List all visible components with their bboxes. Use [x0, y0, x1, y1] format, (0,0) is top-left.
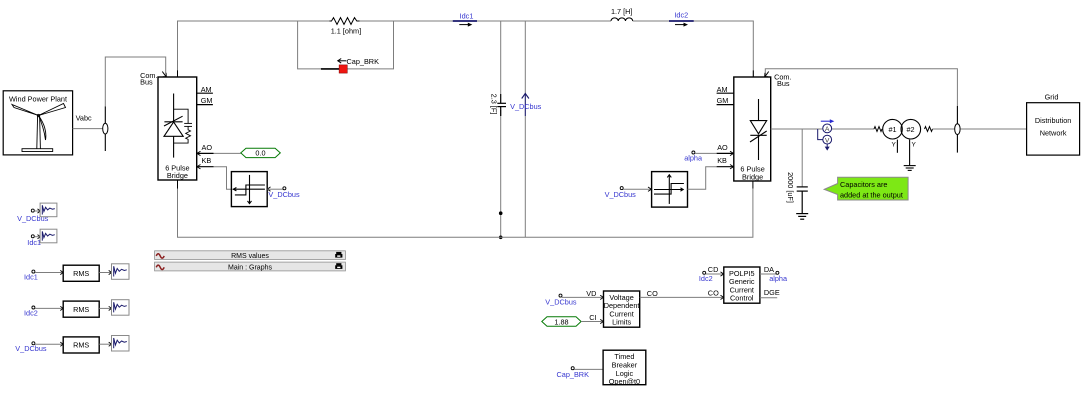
transformer T1 circle 1: [883, 119, 903, 139]
resistor R1 1.1 ohm: [330, 18, 360, 25]
terminal alpha to AO bridge2: [692, 151, 695, 154]
svg-text:0.0: 0.0: [255, 149, 265, 158]
svg-text:DGE: DGE: [764, 288, 780, 297]
svg-text:Idc1: Idc1: [24, 273, 38, 282]
wire bridge1 top lead: [177, 70, 179, 77]
svg-text:GM: GM: [717, 96, 729, 105]
svg-text:#2: #2: [907, 125, 915, 134]
scope terminal Idc1 (top left): [27, 235, 41, 247]
svg-text:Grid: Grid: [1045, 92, 1059, 101]
wire bottom DC rail: [178, 189, 753, 238]
pin KB bridge2: [717, 166, 734, 168]
svg-text:Distribution: Distribution: [1035, 116, 1072, 125]
pin GM bridge2: [717, 104, 734, 106]
svg-text:Bridge: Bridge: [167, 171, 188, 180]
snubber RC in bridge1: [174, 109, 192, 143]
wind power plant box: [3, 91, 72, 155]
RMS block row 1 (Idc1): [24, 264, 129, 282]
wire com bus 1: [105, 57, 165, 106]
wire limiter2 out to KB bridge2: [688, 167, 717, 190]
wind turbine drawing: [12, 104, 66, 152]
voltmeter V_DCbus branch: [524, 21, 526, 94]
wire CO to POLPI5: [640, 296, 724, 298]
wire KB to limiter1: [214, 167, 232, 190]
wire Vabc: [73, 128, 103, 130]
scope icon 1: [40, 203, 57, 217]
bus B2: [955, 106, 960, 153]
hexagon meter 0.0: [241, 148, 280, 157]
op bridge2 box 6 Pulse Bridge: [734, 77, 771, 181]
pin DGE: [760, 297, 777, 299]
svg-text:added at the output: added at the output: [840, 190, 903, 199]
svg-text:V_DCbus: V_DCbus: [605, 190, 637, 199]
pin AO bridge1: [197, 152, 214, 154]
svg-text:Y: Y: [892, 142, 897, 149]
bus B1: [103, 106, 108, 151]
svg-text:V_DCbus: V_DCbus: [510, 102, 542, 111]
svg-text:Limits: Limits: [612, 318, 631, 327]
svg-text:CI: CI: [589, 313, 596, 322]
wire bus2 to grid: [960, 128, 1026, 130]
terminal V_DCbus (VDCL): [545, 289, 603, 307]
breaker BRK red square: [339, 65, 347, 73]
svg-text:2000 [uF]: 2000 [uF]: [786, 172, 795, 203]
terminal alpha (DA output): [760, 265, 788, 283]
svg-text:CO: CO: [708, 289, 719, 298]
pin KB bridge1: [197, 166, 214, 168]
svg-text:CO: CO: [647, 289, 658, 298]
svg-text:Control: Control: [730, 294, 754, 303]
breaker BRK lead: [321, 68, 339, 70]
arrow into bridge2 top: [765, 72, 769, 77]
svg-text:Network: Network: [1040, 128, 1067, 137]
svg-text:Idc1: Idc1: [27, 238, 41, 247]
voltmeter V: [823, 135, 832, 150]
svg-text:Main : Graphs: Main : Graphs: [228, 264, 272, 271]
svg-text:GM: GM: [201, 96, 213, 105]
svg-text:Bridge: Bridge: [742, 172, 763, 181]
thyristor in bridge1: [164, 94, 183, 158]
label Cap_BRK with arrow: [338, 57, 379, 66]
limiter block 1: [231, 172, 267, 207]
svg-text:V: V: [825, 137, 830, 144]
wire breaker parallel branch: [298, 21, 394, 69]
svg-text:Cap_BRK: Cap_BRK: [347, 57, 380, 66]
callout Capacitors are added at the output: [824, 177, 908, 200]
ammeter Idc1: [453, 12, 477, 27]
terminal Idc2 (CD input): [699, 265, 724, 283]
svg-text:KB: KB: [202, 156, 212, 165]
thyristor in bridge2: [750, 99, 767, 160]
svg-text:#1: #1: [889, 125, 897, 134]
bar Main : Graphs: [155, 262, 346, 271]
svg-text:1.1 [ohm]: 1.1 [ohm]: [331, 27, 361, 36]
wire capacitor C2 branch: [801, 129, 803, 187]
ground under C2: [796, 214, 808, 220]
transformer T1 leakage zigzag left: [874, 127, 882, 132]
transformer T1 leakage zigzag right: [925, 127, 933, 132]
scope icon 2: [40, 229, 57, 243]
svg-text:RMS values: RMS values: [231, 253, 269, 260]
svg-text:Open@t0: Open@t0: [609, 377, 640, 386]
transformer T1 circle 2: [901, 119, 921, 139]
wire AO to hexagon: [214, 152, 241, 154]
capacitor C1 2.3 F: [497, 94, 506, 116]
op bridge1 box 6 Pulse Bridge: [158, 77, 197, 180]
svg-text:VD: VD: [586, 289, 596, 298]
svg-text:KB: KB: [717, 156, 727, 165]
svg-text:V_DCbus: V_DCbus: [545, 298, 577, 307]
svg-text:RMS: RMS: [73, 305, 89, 314]
svg-text:AM: AM: [201, 85, 212, 94]
block POLPI5 Generic Current Control: [724, 267, 760, 303]
wire bridge1 bottom lead: [177, 180, 179, 189]
wire com bus 2: [765, 69, 957, 106]
svg-text:Vabc: Vabc: [76, 113, 92, 122]
svg-text:Idc2: Idc2: [674, 11, 688, 20]
svg-text:RMS: RMS: [73, 341, 89, 350]
wire bridge2 bottom lead: [752, 181, 754, 189]
wire transformer to bus2: [933, 128, 955, 130]
hexagon constant 1.88: [542, 313, 604, 326]
svg-text:alpha: alpha: [769, 274, 788, 283]
svg-text:RMS: RMS: [73, 269, 89, 278]
RMS block row 3 (V_DCbus): [15, 336, 129, 354]
inductor L1 1.7 H: [611, 18, 633, 21]
svg-text:AO: AO: [202, 143, 213, 152]
ammeter A: [818, 119, 835, 139]
terminal Cap_BRK: [557, 367, 604, 379]
transformer neutral stub: [896, 140, 898, 153]
pin GM bridge1: [197, 104, 213, 106]
terminal V_DCbus (limiter2): [620, 187, 623, 190]
block Timed Breaker Logic: [603, 350, 646, 386]
wire AC output of bridge2: [771, 128, 874, 130]
svg-text:Bus: Bus: [140, 78, 153, 87]
pin AO bridge2: [717, 152, 734, 154]
svg-text:Capacitors are: Capacitors are: [840, 180, 887, 189]
pin AM bridge1: [197, 92, 213, 94]
svg-text:alpha: alpha: [684, 154, 703, 163]
svg-text:Idc1: Idc1: [460, 12, 474, 21]
svg-text:1.88: 1.88: [554, 317, 568, 326]
wire top DC rail: [178, 21, 754, 77]
transformer ground: [904, 140, 916, 171]
node junction dots: [499, 211, 503, 215]
block Voltage Dependent Current Limits: [604, 291, 640, 327]
svg-text:AO: AO: [717, 143, 728, 152]
grid box Distribution Network: [1027, 103, 1080, 155]
svg-text:DA: DA: [764, 265, 774, 274]
wire bridge2 top lead: [752, 70, 754, 77]
svg-text:2.3 [F]: 2.3 [F]: [490, 94, 499, 115]
svg-text:A: A: [825, 126, 830, 133]
scope terminal V_DCbus (top left): [17, 209, 49, 223]
wire capacitor C1 branch: [500, 21, 502, 94]
svg-text:Idc2: Idc2: [24, 308, 38, 317]
bar RMS values: [155, 251, 346, 260]
svg-text:Cap_BRK: Cap_BRK: [557, 370, 590, 379]
svg-text:1.7 [H]: 1.7 [H]: [611, 7, 633, 16]
svg-text:V_DCbus: V_DCbus: [15, 344, 47, 353]
terminal V_DCbus (limiter1): [267, 187, 270, 191]
svg-text:CD: CD: [708, 265, 719, 274]
svg-text:V_DCbus: V_DCbus: [268, 190, 300, 199]
svg-text:Wind Power Plant: Wind Power Plant: [9, 94, 67, 103]
capacitor C2 2000 uF: [797, 187, 808, 214]
svg-text:Bus: Bus: [777, 79, 790, 88]
arrow into bridge1 top: [162, 72, 166, 77]
ammeter Idc2: [669, 11, 694, 27]
svg-text:Idc2: Idc2: [699, 274, 713, 283]
pin AM bridge2: [717, 92, 734, 94]
svg-text:AM: AM: [717, 85, 728, 94]
limiter block 2: [652, 172, 688, 208]
RMS block row 2 (Idc2): [24, 300, 129, 318]
svg-text:Y: Y: [912, 142, 917, 149]
